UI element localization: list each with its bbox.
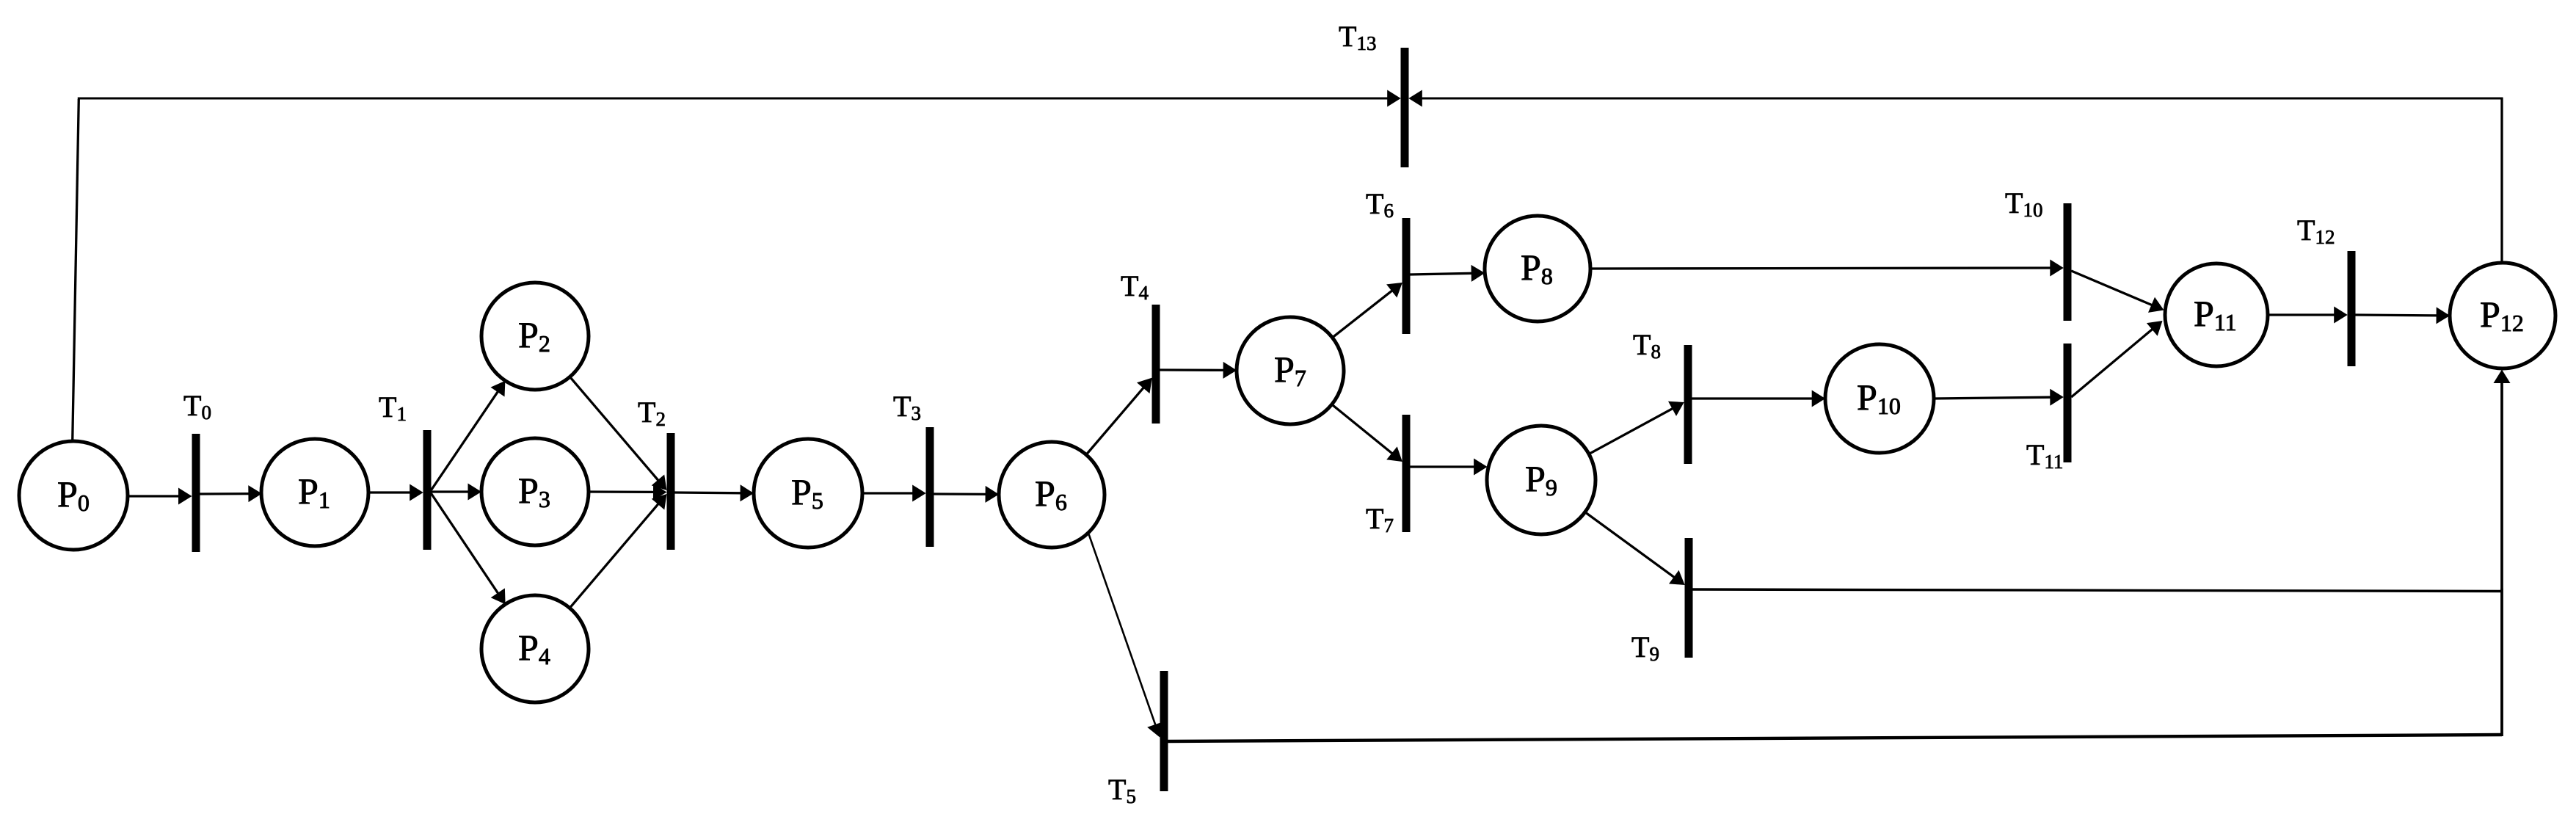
transition T1 <box>379 390 432 550</box>
transition T8 <box>1633 328 1692 464</box>
place P7 <box>1237 317 1344 424</box>
arc P6 to T4 <box>1086 378 1152 455</box>
arc T10 to P11 <box>2071 271 2164 313</box>
arc P9 to T9 <box>1585 512 1685 585</box>
transition T0 <box>183 389 211 552</box>
arc P7 to T6 <box>1332 283 1402 338</box>
arc T2 to P5 <box>674 484 754 501</box>
arc P5 to T3 <box>862 485 926 502</box>
arc top-right to T13 <box>1408 90 2503 107</box>
transition T9 <box>1631 538 1693 665</box>
transition T10 <box>2005 186 2072 321</box>
arc P11 to T12 <box>2268 307 2348 324</box>
arc T8 to P10 <box>1692 390 1825 407</box>
place P0 <box>19 441 128 550</box>
transition T5 <box>1108 671 1168 807</box>
wire P0 top to corner <box>73 99 79 442</box>
wire P12 top to corner <box>2500 98 2503 263</box>
transition T11 <box>2026 344 2072 473</box>
place P3 <box>481 438 589 545</box>
place P9 <box>1487 426 1596 534</box>
arc P8 to T10 <box>1590 260 2064 277</box>
transition T4 <box>1121 269 1160 424</box>
arc T12 to P12 <box>2355 307 2450 324</box>
place P2 <box>481 283 589 390</box>
transition T2 <box>638 396 675 550</box>
arc T6 to P8 <box>1410 265 1485 282</box>
wire T5 feedback to P12 <box>1168 589 2503 741</box>
transition T6 <box>1366 187 1411 334</box>
place P12 <box>2450 263 2555 368</box>
transition T7 <box>1366 415 1411 537</box>
arc P4 to T2 <box>570 494 666 608</box>
arc P2 to T2 <box>570 377 667 490</box>
arc P3 to T2 <box>589 484 667 501</box>
transition T13 <box>1339 20 1409 167</box>
arc P6 to T5 <box>1089 534 1163 737</box>
arc P7 to T7 <box>1332 404 1402 462</box>
arc T4 to P7 <box>1160 362 1237 379</box>
arc P9 to T8 <box>1589 401 1684 454</box>
place P10 <box>1825 344 1934 453</box>
arc feedback into P12 bottom <box>2494 370 2511 590</box>
arc P1 to T1 <box>368 484 423 501</box>
place P4 <box>481 595 589 702</box>
transition T3 <box>893 390 934 547</box>
place P8 <box>1485 216 1590 321</box>
arc top-left to T13 <box>78 90 1401 107</box>
arc T0 to P1 <box>200 485 262 502</box>
wire T9 feedback to P12 <box>1693 589 2503 592</box>
arc P0 to T0 <box>128 488 192 505</box>
arc T1 to P3 <box>431 484 481 501</box>
arc P10 to T11 <box>1934 389 2064 406</box>
place P11 <box>2165 264 2268 366</box>
arc T1 to P2 <box>431 381 505 490</box>
arc T11 to P11 <box>2071 321 2162 397</box>
arc T3 to P6 <box>934 486 999 503</box>
place P6 <box>999 442 1105 548</box>
arc T1 to P4 <box>431 493 505 604</box>
transition T12 <box>2297 214 2356 366</box>
place P5 <box>754 439 862 548</box>
arc T7 to P9 <box>1410 459 1487 476</box>
place P1 <box>261 439 368 546</box>
